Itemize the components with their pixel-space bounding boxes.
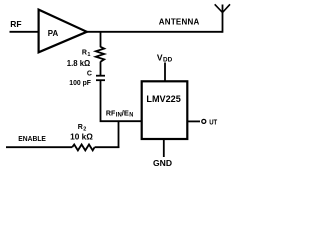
PA label (48, 29, 59, 38)
node GND label (153, 158, 172, 168)
svg-text:10 kΩ: 10 kΩ (70, 133, 93, 142)
R2 value label 10 kOhm (70, 133, 93, 142)
R1 reference label (82, 49, 91, 58)
node RF label (10, 19, 21, 29)
svg-text:GND: GND (153, 158, 172, 168)
wire R1 to C (100, 62, 102, 76)
svg-text:LMV225: LMV225 (146, 94, 180, 104)
wire GND pin (163, 139, 165, 158)
svg-text:ANTENNA: ANTENNA (159, 17, 200, 26)
wire C to RFin pin (101, 80, 142, 121)
svg-text:DD: DD (163, 58, 173, 64)
node ENABLE label (18, 134, 46, 143)
wire VDD pin (164, 63, 166, 83)
wire ENABLE horizontal (6, 146, 72, 148)
R1 value label 1.8 kOhm (67, 59, 91, 68)
R2 reference label (78, 124, 87, 133)
C value label 100 pF (69, 78, 91, 87)
resistor R1 (96, 47, 104, 62)
svg-text:UT: UT (209, 117, 217, 126)
wire PA output to antenna (86, 31, 223, 33)
svg-text:R: R (78, 124, 83, 131)
svg-text:R: R (82, 49, 87, 56)
svg-text:N: N (129, 113, 133, 119)
wire enable branch up to RFin node (118, 121, 120, 148)
wire OUT pin (188, 120, 201, 122)
wire RF input (10, 31, 39, 33)
pin label RFin/EN (106, 110, 134, 118)
U1 name label LMV225 (146, 94, 180, 104)
IC U1 LMV225 body (142, 81, 188, 139)
svg-text:V: V (157, 53, 163, 63)
C reference label (87, 71, 92, 78)
op-amp PA (power amplifier triangle) (39, 10, 87, 53)
svg-text:ENABLE: ENABLE (18, 134, 46, 143)
wire R2 to enable branch (95, 146, 120, 148)
svg-text:C: C (87, 71, 92, 78)
wire junction drop to R1 (100, 31, 102, 47)
svg-text:100 pF: 100 pF (69, 78, 91, 87)
svg-text:RF: RF (10, 19, 21, 29)
svg-text:2: 2 (83, 126, 86, 132)
svg-text:PA: PA (48, 29, 59, 38)
pin terminal OUT circle (202, 119, 206, 123)
node OUT label (209, 117, 217, 126)
svg-text:1.8 kΩ: 1.8 kΩ (67, 59, 91, 68)
svg-text:/E: /E (122, 110, 129, 117)
svg-text:1: 1 (87, 52, 90, 58)
svg-text:RF: RF (106, 110, 116, 117)
capacitor C (96, 76, 105, 81)
resistor R2 (72, 145, 94, 151)
node VDD label (157, 53, 173, 64)
antenna ANT1 (215, 4, 230, 32)
node ANTENNA label (159, 17, 200, 26)
